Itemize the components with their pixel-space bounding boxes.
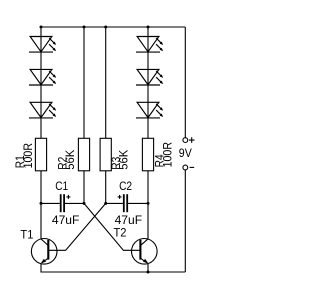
svg-text:T1: T1 (20, 230, 33, 242)
svg-text:56K: 56K (65, 149, 77, 169)
svg-text:C1: C1 (55, 181, 68, 193)
svg-text:47uF: 47uF (115, 215, 143, 227)
svg-text:9V: 9V (179, 148, 192, 160)
svg-text:C2: C2 (119, 181, 132, 193)
svg-text:T2: T2 (114, 227, 127, 239)
svg-text:100R: 100R (23, 143, 35, 168)
svg-text:100R: 100R (162, 142, 174, 167)
svg-text:47uF: 47uF (52, 215, 80, 227)
svg-text:56K: 56K (119, 149, 131, 169)
